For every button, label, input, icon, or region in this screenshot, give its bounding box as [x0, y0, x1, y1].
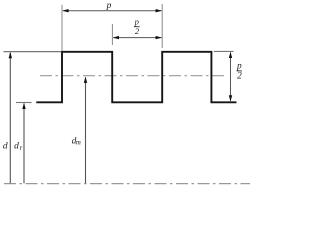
dimension line p [62, 9, 162, 12]
label dr [14, 142, 22, 152]
thread profile outline [36, 52, 236, 103]
extension line crest right [214, 50, 234, 52]
dimension line dm [84, 77, 87, 184]
svg-text:2: 2 [237, 72, 242, 82]
pitch centerline [40, 75, 226, 77]
extension line root (dr) left [16, 102, 32, 104]
thread axis centerline [4, 183, 250, 185]
svg-text:r: r [20, 145, 23, 152]
dimension line dr [22, 103, 25, 184]
dimension line p/2 horizontal [113, 36, 162, 39]
extension line vertical at x=162.2 [161, 4, 163, 48]
label dm [72, 136, 81, 146]
svg-text:p: p [106, 1, 112, 11]
extension line vertical at x=112.4 [111, 24, 113, 45]
svg-text:d: d [3, 142, 8, 152]
svg-text:d: d [14, 142, 19, 152]
label p/2 right [236, 62, 242, 82]
svg-text:m: m [76, 140, 81, 147]
dimension line p/2 vertical right [229, 52, 232, 102]
label p/2 top [134, 16, 140, 35]
extension line vertical at x=62 [61, 5, 63, 51]
svg-text:2: 2 [135, 26, 140, 36]
svg-text:p: p [236, 62, 242, 72]
extension line crest (d) left [4, 51, 62, 53]
dimension line d [9, 52, 12, 183]
